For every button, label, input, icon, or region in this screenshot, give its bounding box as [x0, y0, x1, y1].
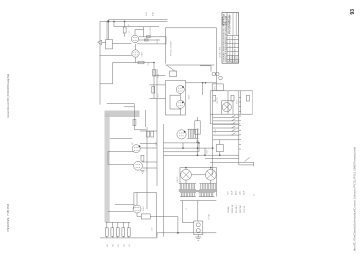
- svg-text:2800 DORR AVE FAIRFAX VIRGINIA: 2800 DORR AVE FAIRFAX VIRGINIA 22031 USA: [225, 15, 228, 62]
- wire shield conductor: [106, 21, 108, 39]
- svg-text:12AX7: 12AX7: [141, 52, 144, 57]
- wire y62.5: [113, 62, 154, 64]
- bridge rectifier BR2: [205, 169, 216, 180]
- wire long vertical x147: [146, 127, 148, 209]
- svg-text:12AX7: 12AX7: [188, 95, 191, 100]
- wire y164.9: [239, 164, 254, 166]
- wire x154 down: [153, 63, 155, 99]
- wire main vertical x157: [156, 69, 158, 186]
- wire y148.1: [163, 147, 212, 149]
- wire V5 cathode to R45: [137, 213, 141, 217]
- svg-text:DWG NO 10-052 REV B: DWG NO 10-052 REV B: [230, 36, 232, 62]
- wire x177.9 down: [177, 217, 179, 233]
- psu vertical x240.4: [239, 91, 241, 114]
- wire x253.8: [253, 162, 255, 166]
- wire y164.4: [108, 163, 134, 165]
- wire x145.4 mid: [144, 110, 146, 127]
- svg-text:SW PWR: SW PWR: [240, 204, 242, 213]
- svg-text:V1: V1: [129, 31, 131, 33]
- resistor R32: [141, 155, 144, 161]
- node dot V4a: [139, 145, 141, 147]
- node dot y82.8 b: [205, 82, 207, 84]
- lamp L1: [196, 223, 200, 227]
- node dot input bus: [197, 154, 199, 156]
- resistor R1: [123, 27, 126, 33]
- node dot V2b: [182, 101, 184, 103]
- wire input box down: [197, 134, 199, 155]
- wire x182.5 down: [182, 201, 184, 223]
- tube V6: [177, 130, 186, 139]
- svg-text:6GK5: 6GK5: [143, 206, 145, 211]
- bridge rectifier BR1: [181, 169, 192, 180]
- tube V2b: [177, 100, 185, 108]
- wire between bridges: [191, 174, 205, 176]
- wire y75.5: [154, 75, 166, 77]
- capacitor C2 body: [147, 36, 151, 38]
- wire y84.9: [149, 84, 165, 86]
- wire top rail lower: [100, 20, 168, 22]
- transformer T1 primary right: [199, 193, 215, 197]
- svg-text:Conrad Johnson PV10_PV12 1988: Conrad Johnson PV10_PV12 1988 Preamp.htm…: [7, 74, 10, 118]
- svg-text:C27: C27: [228, 192, 230, 195]
- resistor R20: [213, 95, 216, 101]
- svg-text:.047 630V: .047 630V: [150, 26, 152, 36]
- lamp L2: [196, 229, 200, 233]
- svg-text:450V: 450V: [236, 190, 238, 195]
- node dot rung: [212, 147, 214, 149]
- wire y139.8: [213, 139, 239, 141]
- input jack arrow: [98, 40, 106, 45]
- capacitor C15 marks: [196, 141, 199, 142]
- psu rail y123.8: [210, 123, 240, 125]
- tube V4a: [132, 145, 140, 153]
- scanner smudge vertical bar: [105, 114, 110, 223]
- wire R1 leads: [124, 21, 126, 36]
- wire grid line y55.4: [100, 54, 132, 56]
- switch arm diagonal: [167, 65, 176, 72]
- svg-text:117V 60: 117V 60: [244, 206, 246, 213]
- svg-text:E1: E1: [254, 194, 256, 196]
- node dot V6: [184, 131, 186, 133]
- wire phono internal b: [179, 94, 181, 116]
- tube V1a: [131, 35, 138, 42]
- resistor R30: [147, 131, 150, 137]
- resistor R6: [138, 61, 144, 64]
- svg-text:PHONO TUNER: PHONO TUNER: [171, 41, 173, 56]
- psu vertical x228: [227, 91, 229, 114]
- relay box K1: [216, 145, 223, 152]
- wire y204.5: [115, 204, 134, 206]
- svg-text:CD AUX EPL: CD AUX EPL: [219, 45, 222, 58]
- transistor Q2: [216, 72, 220, 76]
- wire V5 plate up: [136, 193, 138, 206]
- svg-text:SCALE NONE SHT 1 OF 1: SCALE NONE SHT 1 OF 1: [234, 37, 237, 62]
- resistor row R41: [111, 228, 114, 237]
- transistor Q1: [212, 72, 216, 76]
- wire step x183: [182, 143, 184, 148]
- wire y222.7: [183, 222, 194, 224]
- transformer T1 primary left: [180, 193, 196, 197]
- node dot step x183: [182, 147, 184, 149]
- wire V1b cathode: [135, 57, 137, 62]
- fuse lamp box: [194, 221, 203, 235]
- resistor row R40: [105, 228, 108, 237]
- title block bottom cell dividers: [230, 56, 238, 64]
- tube V3 rectifier: [222, 103, 231, 112]
- wire y98.6: [149, 98, 165, 100]
- wire V4b plate right: [142, 161, 157, 163]
- psu vertical x252.6: [252, 91, 254, 114]
- wire y158.7: [205, 158, 239, 160]
- switch bank rung 2: [213, 119, 239, 121]
- svg-text:SLO-BLO: SLO-BLO: [236, 204, 238, 213]
- wire x180: [179, 168, 181, 184]
- wire y222.3: [105, 221, 130, 223]
- psu vertical x210.2: [209, 91, 211, 124]
- wire left spine: [99, 21, 101, 104]
- wire y155.5: [163, 155, 199, 157]
- node dot y62.5: [153, 62, 155, 64]
- wire bus jog: [156, 233, 158, 238]
- wire y129.8: [134, 129, 146, 131]
- terminal bus ticks: [239, 97, 241, 149]
- switch bank rung 1: [213, 115, 239, 117]
- node dot step x205: [204, 154, 206, 156]
- resistor R7: [153, 70, 156, 77]
- wire bottom bus left: [100, 237, 157, 239]
- wire V1a plate: [135, 30, 144, 36]
- selector box outline: [166, 28, 217, 65]
- wire relay leads: [219, 140, 221, 155]
- wire y43.9: [137, 43, 166, 45]
- wire y103.7: [107, 103, 135, 105]
- power switch S2: [245, 157, 250, 161]
- wire x202.7 down: [202, 83, 204, 95]
- title block row lines: [227, 36, 239, 60]
- wire x134.4 down: [133, 104, 135, 130]
- wire input box lead upper: [197, 117, 199, 121]
- switch bank rung 6: [213, 133, 239, 135]
- wire x199: [198, 143, 200, 152]
- node junction dot B: [113, 21, 115, 23]
- wire phono internal a: [170, 95, 181, 109]
- wire main vertical x163.4: [162, 124, 164, 237]
- wire y167.5: [180, 167, 217, 169]
- title block divider mid column: [232, 36, 234, 64]
- resistor row R43: [122, 228, 125, 237]
- winding W1: [188, 129, 199, 138]
- wire V4a plate right: [140, 143, 157, 145]
- wire step x205: [204, 148, 206, 155]
- wire resistor row top legs: [107, 222, 129, 228]
- tube V1b: [132, 50, 139, 57]
- svg-text:T1: T1: [186, 208, 188, 210]
- resistor row R42: [116, 228, 119, 237]
- resistor R21: [231, 95, 234, 101]
- tube V3 enclosure box: [222, 101, 233, 114]
- svg-text:10K 2W: 10K 2W: [217, 97, 219, 104]
- svg-text:93: 93: [350, 9, 356, 15]
- tube V4b: [134, 161, 143, 170]
- svg-text:R IN: R IN: [153, 11, 155, 16]
- node junction dot C: [124, 21, 126, 23]
- svg-text:PV-10 PREAMP: PV-10 PREAMP: [229, 13, 232, 34]
- wire x108 segment: [107, 152, 109, 165]
- ground symbol G1: [141, 171, 145, 174]
- wire y36.8: [139, 36, 166, 38]
- wire vertical x143.6: [143, 27, 145, 37]
- wire V4a cathode right: [140, 147, 157, 149]
- svg-text:120VAC: 120VAC: [227, 205, 230, 213]
- title block upper column dividers: [233, 13, 236, 36]
- resistor R22: [246, 95, 249, 101]
- node dot y82.8 a: [202, 82, 204, 84]
- resistor R8: [152, 87, 155, 94]
- wire y162.3: [210, 161, 254, 163]
- node dot V2a: [182, 86, 184, 88]
- psu rail y114.2: [210, 113, 252, 115]
- svg-text:C28: C28: [240, 192, 242, 195]
- svg-text:100K: 100K: [157, 38, 159, 43]
- wire y131: [140, 130, 157, 132]
- wire bottom bus right: [157, 232, 216, 234]
- wire x197.8 down: [197, 201, 199, 221]
- switch bank rung 4: [213, 126, 239, 128]
- node dot relay bus: [219, 154, 221, 156]
- bridge BR2 leads: [210, 168, 212, 184]
- wire x212.7 vertical: [212, 91, 214, 175]
- wire x216.5 lower: [216, 168, 218, 197]
- node dot x177.9: [177, 232, 179, 234]
- wire y155.2: [199, 154, 239, 156]
- svg-text:5E: 5E: [238, 61, 240, 63]
- transformer T1 secondary right: [199, 184, 216, 190]
- resistor R10: [170, 71, 177, 77]
- wire y82.8: [186, 82, 217, 84]
- svg-text:file:///C:/TheClassicSchematic: file:///C:/TheClassicSchematics/Conrad J…: [354, 146, 357, 251]
- output stage box: [134, 193, 157, 237]
- svg-text:117VAC: 117VAC: [208, 213, 211, 220]
- svg-text:1N4007: 1N4007: [177, 177, 179, 183]
- input label box: [195, 121, 200, 134]
- wire second rail: [114, 26, 159, 28]
- wire V4b cathode right: [142, 167, 157, 169]
- regulator label box: [212, 84, 223, 91]
- wire y142.9: [163, 142, 199, 144]
- wire lamp down: [197, 235, 199, 238]
- wire y200.6: [180, 200, 216, 202]
- tube V2a: [176, 86, 184, 94]
- scanner smudge horizontal band: [105, 111, 140, 118]
- wire x112.7 down: [112, 63, 114, 84]
- node dot x197.5: [197, 147, 199, 149]
- resistor row R44: [127, 228, 130, 237]
- wire y83.8: [100, 83, 113, 85]
- selector box bottom: [166, 64, 215, 66]
- wire y65.8: [200, 66, 211, 72]
- wire jack to V1a grid: [113, 43, 132, 45]
- switch bank rung 3: [213, 122, 239, 124]
- input jack box J1: [106, 40, 113, 49]
- svg-text:SW1: SW1: [215, 129, 217, 133]
- terminal bus x238.8: [238, 90, 240, 165]
- node dot x199: [198, 142, 200, 144]
- switch bank rung 5: [213, 129, 239, 131]
- wire x216.5 down: [216, 65, 218, 91]
- resistor R45: [141, 214, 150, 219]
- transistor Q3: [219, 76, 223, 80]
- wire top rail upper: [109, 18, 168, 20]
- transformer T1 secondary left: [179, 184, 196, 190]
- wire y151.8: [163, 151, 199, 153]
- bridge BR1 leads: [185, 168, 187, 184]
- capacitor C3 body: [145, 39, 149, 41]
- wire from dot A down: [107, 19, 109, 39]
- svg-text:REG: REG: [215, 86, 217, 90]
- svg-text:V4: V4: [132, 143, 134, 145]
- svg-text:7/19/2023, 7:35 PM: 7/19/2023, 7:35 PM: [6, 204, 10, 232]
- transformer T1 core: [179, 191, 217, 192]
- phono box outline: [166, 81, 186, 116]
- resistor R31: [151, 131, 154, 137]
- wire from dot B down: [113, 21, 115, 26]
- wire V1b plate up: [135, 44, 137, 50]
- ground symbol G2: [195, 237, 201, 240]
- node junction dot A: [107, 20, 109, 22]
- svg-text:FUSE 1A: FUSE 1A: [231, 204, 234, 213]
- svg-text:0.22: 0.22: [158, 94, 160, 98]
- title block divider left column: [226, 13, 228, 64]
- svg-text:INPUT: INPUT: [198, 127, 200, 134]
- wire resistor row bottom legs: [107, 236, 129, 238]
- revision note box: [223, 17, 227, 25]
- wire y151.5: [108, 151, 134, 153]
- wire y138.3: [110, 137, 132, 139]
- wire y40: [139, 39, 160, 41]
- svg-text:L IN: L IN: [146, 12, 148, 16]
- wire vertical x166: [165, 37, 167, 44]
- tube V5: [133, 205, 141, 213]
- title block outer frame: [222, 13, 239, 64]
- wire y211.4: [108, 210, 133, 212]
- wire y216.5: [150, 216, 178, 218]
- resistor R9: [133, 120, 136, 126]
- psu rail y90.8: [210, 90, 252, 92]
- wire y106.8: [124, 106, 134, 108]
